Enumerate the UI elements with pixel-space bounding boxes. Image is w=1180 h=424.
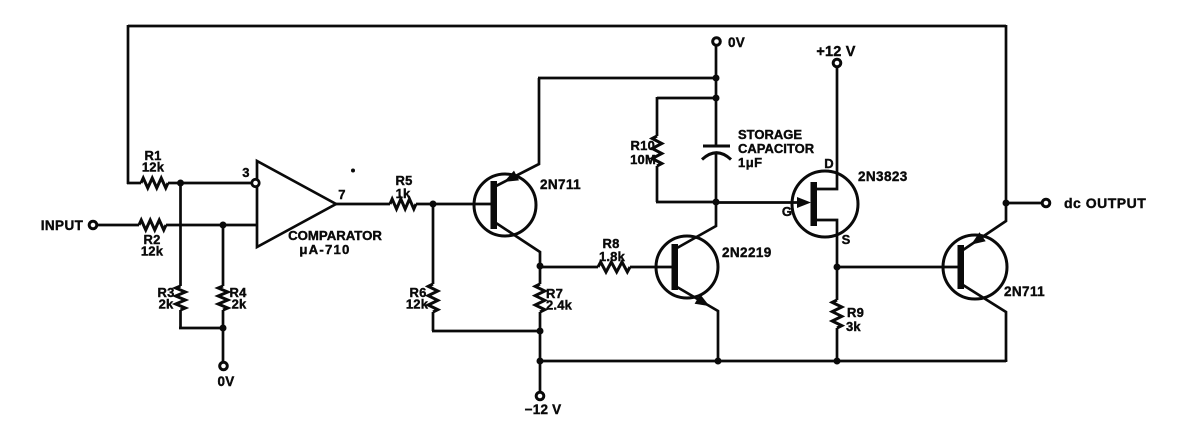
Q1 collector lead: [496, 223, 540, 267]
wire R9 bottom lead: [836, 328, 839, 362]
svg-text:0V: 0V: [218, 374, 235, 389]
terminal +12V: [833, 59, 841, 67]
capacitor C1 bottom lead: [715, 153, 718, 203]
node R3/R4 junction: [220, 325, 227, 332]
Q4 emitter lead: [963, 203, 1006, 250]
svg-text:2.4k: 2.4k: [546, 298, 573, 313]
wire R1 left lead: [127, 182, 141, 185]
Q2 emitter lead: [677, 287, 718, 362]
svg-text:+12 V: +12 V: [816, 44, 855, 60]
wire left feedback drop: [127, 25, 130, 184]
pin 3 input circle: [252, 179, 259, 186]
svg-text:μA-710: μA-710: [299, 242, 350, 257]
wire 0V column: [715, 45, 718, 146]
wire comparator output: [334, 203, 390, 206]
Q4 collector lead: [963, 285, 1006, 362]
Q1 base bar: [491, 181, 498, 229]
svg-text:COMPARATOR: COMPARATOR: [288, 228, 382, 243]
resistor R7: [535, 284, 545, 312]
svg-text:R10: R10: [631, 138, 655, 153]
svg-text:12k: 12k: [406, 297, 429, 312]
svg-text:0V: 0V: [728, 35, 745, 50]
wire R6 bottom lead: [432, 312, 435, 331]
svg-text:2N2219: 2N2219: [722, 245, 772, 260]
wire Q1 emitter to 0V rail: [538, 77, 716, 80]
svg-text:2N711: 2N711: [1004, 284, 1045, 299]
wire node D to R8: [540, 266, 598, 269]
terminal 0V (top): [713, 38, 721, 46]
svg-text:1.8k: 1.8k: [599, 249, 626, 264]
node Q3 source junction: [834, 264, 841, 271]
wire dc output lead: [1006, 202, 1042, 205]
terminal INPUT: [89, 221, 97, 229]
wire node A down to R3: [179, 183, 182, 286]
svg-text:12k: 12k: [141, 244, 164, 259]
wire INPUT lead: [97, 224, 139, 227]
wire to 0V bottom terminal: [222, 328, 225, 362]
svg-text:10M: 10M: [630, 152, 656, 167]
svg-text:3k: 3k: [846, 319, 861, 334]
wire R1 to node A: [168, 182, 181, 185]
resistor R8: [598, 262, 630, 272]
transistor Q3 2N3823 circle: [792, 171, 858, 237]
node Q2 emitter rail junction: [715, 358, 722, 365]
node dc output junction: [1003, 200, 1010, 207]
wire R8 to Q2 base: [630, 266, 672, 269]
Q2 collector lead: [677, 203, 716, 248]
wire top feedback rail: [128, 25, 1006, 28]
resistor R10: [652, 136, 662, 166]
wire source to Q4 base: [837, 266, 958, 269]
transistor Q2 2N2219 circle: [656, 236, 718, 298]
svg-text:2N3823: 2N3823: [858, 169, 908, 184]
terminal dc OUTPUT: [1042, 199, 1050, 207]
terminal 0V (bottom): [220, 362, 228, 370]
Q3 gate arrow: [797, 197, 811, 208]
wire node D to R7: [539, 266, 542, 284]
node B junction (R2/R4/pin2): [220, 222, 227, 229]
wire R10 top lead: [656, 97, 659, 136]
wire gate lead: [716, 201, 804, 204]
wire R2 to comparator inverting input: [166, 224, 257, 227]
Q4 emitter arrow: [971, 232, 986, 244]
wire node A to pin 3: [180, 182, 252, 185]
wire node B down to R4: [222, 225, 225, 286]
node R6/R7 bottom junction: [537, 328, 544, 335]
Q2 base bar: [672, 244, 679, 290]
resistor R1: [141, 178, 168, 188]
capacitor C1 bottom plate: [702, 153, 731, 160]
resistor R2: [139, 220, 166, 230]
node D junction (Q1 collector/R7/R8): [537, 263, 544, 270]
Q1 emitter lead: [496, 78, 539, 186]
node C1/gate junction: [713, 199, 720, 206]
op-amp U1 comparator triangle: [257, 161, 336, 247]
Q3 source lead: [816, 220, 837, 268]
svg-text:2N711: 2N711: [540, 177, 581, 192]
wire Q4 collector rail segment: [1005, 360, 1008, 361]
wire R5 to node C: [416, 203, 433, 206]
wire R10 bottom lead: [656, 166, 659, 202]
wire node C down to R6: [432, 204, 435, 284]
svg-text:dc OUTPUT: dc OUTPUT: [1064, 195, 1146, 211]
wire node C to Q1 base: [433, 203, 491, 206]
svg-text:S: S: [842, 232, 851, 247]
node R9 rail junction: [834, 358, 841, 365]
node -12V rail left junction: [537, 358, 544, 365]
svg-text:D: D: [824, 156, 834, 171]
resistor R9: [832, 300, 842, 328]
node A junction (R1/R3/pin3): [177, 180, 184, 187]
resistor R4: [218, 286, 228, 310]
svg-text:INPUT: INPUT: [41, 218, 84, 233]
wire R6 to R7 bottom link: [432, 330, 540, 333]
wire right feedback riser: [1005, 25, 1008, 203]
Q4 base bar: [958, 245, 965, 289]
resistor R3: [176, 286, 186, 310]
svg-text:1k: 1k: [396, 186, 411, 201]
capacitor C1 top plate: [703, 145, 730, 148]
svg-text:−12 V: −12 V: [525, 402, 562, 417]
wire R7 junction to -12V rail: [539, 331, 542, 362]
Q2 emitter arrow: [695, 294, 710, 306]
svg-text:2k: 2k: [159, 297, 174, 312]
wire bottom -12V rail: [539, 360, 1006, 363]
wire R4 bottom lead: [222, 310, 225, 328]
transistor Q4 2N711 circle: [943, 235, 1007, 299]
svg-text:STORAGE: STORAGE: [738, 127, 802, 142]
resistor R5: [390, 199, 416, 209]
Q3 channel bar: [811, 182, 818, 226]
Q3 drain lead: [816, 67, 837, 189]
wire R9 top lead: [836, 267, 839, 300]
node 0V/Q1-emitter junction: [713, 75, 720, 82]
terminal -12V: [536, 392, 544, 400]
wire R10 bottom link: [656, 201, 716, 204]
wire R3 to R4 bottom link: [179, 327, 223, 330]
resistor R6: [428, 284, 438, 312]
svg-text:3: 3: [242, 165, 249, 180]
svg-text:R9: R9: [847, 305, 864, 320]
Q1 emitter arrow: [504, 171, 519, 182]
svg-text:1μF: 1μF: [738, 155, 763, 170]
svg-text:7: 7: [338, 187, 345, 202]
node 0V/R10 junction: [713, 95, 720, 102]
stray print dot: [351, 169, 355, 173]
wire R3 bottom lead: [179, 310, 182, 328]
wire R10 top link: [657, 97, 716, 100]
transistor Q1 2N711 circle: [474, 174, 536, 236]
svg-text:CAPACITOR: CAPACITOR: [738, 141, 815, 156]
wire R7 bottom lead: [539, 312, 542, 331]
svg-text:2k: 2k: [232, 297, 247, 312]
svg-text:12k: 12k: [142, 160, 165, 175]
wire -12V stub: [539, 361, 542, 392]
node C junction (R5/R6/Q1 base): [430, 201, 437, 208]
